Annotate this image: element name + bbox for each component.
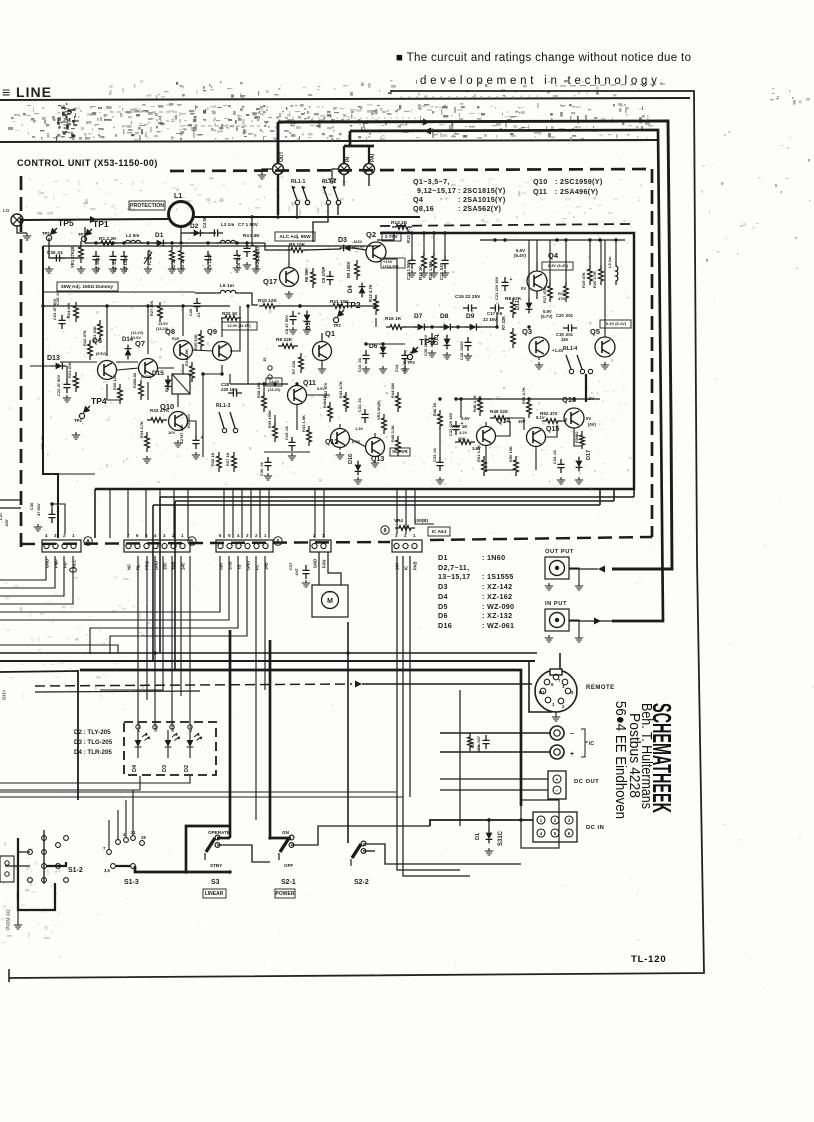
transistor Q2	[366, 242, 386, 262]
potentiometer VR4	[395, 526, 415, 531]
svg-text:13.9V: 13.9V	[131, 336, 141, 340]
svg-text:R7 22K: R7 22K	[291, 360, 296, 374]
svg-text:LO: LO	[3, 208, 10, 213]
transistor Q3	[529, 337, 549, 357]
ground C22	[63, 395, 71, 402]
wire Q8 emitter	[182, 364, 184, 374]
wire S3 aux	[217, 845, 270, 862]
wire box to connector drop	[173, 489, 175, 538]
ground under R2	[168, 266, 176, 273]
svg-text:6: 6	[219, 533, 222, 538]
svg-text:6: 6	[568, 831, 571, 836]
resistor R22	[88, 340, 93, 360]
svg-text:TP5: TP5	[58, 218, 74, 228]
junction	[614, 238, 617, 241]
ground C36	[34, 524, 42, 531]
ground under C7	[243, 262, 251, 269]
boxed label Q4 voltage	[542, 262, 573, 270]
resistor R40	[328, 402, 333, 422]
ground under TC1	[144, 266, 152, 273]
capacitor C1 .047	[482, 735, 489, 749]
ghost outline	[214, 105, 216, 135]
junction	[527, 397, 530, 400]
svg-text:C8 470P: C8 470P	[321, 266, 326, 283]
wire Q12 c	[339, 424, 341, 428]
svg-text:C35 .01: C35 .01	[47, 250, 64, 255]
svg-text:100: 100	[186, 414, 191, 421]
wire PA drop	[368, 146, 370, 163]
svg-text:R5 10K: R5 10K	[289, 242, 306, 248]
resistor R32	[221, 316, 241, 321]
svg-text:TL-120: TL-120	[631, 954, 666, 965]
wire C22 net	[66, 366, 68, 379]
resistor R13	[392, 225, 412, 230]
ground under C8	[289, 327, 297, 334]
svg-text:FAN: FAN	[322, 560, 327, 568]
ground Q1 emitter	[318, 366, 326, 373]
svg-text:D8: D8	[440, 313, 449, 320]
capacitor C33	[436, 457, 443, 471]
connector block D	[310, 540, 331, 552]
ground C27	[192, 452, 200, 459]
ground at antenna terminal	[23, 233, 31, 240]
diode D17	[576, 461, 583, 468]
svg-text:D13: D13	[47, 355, 60, 362]
wire C4 route	[110, 556, 247, 654]
svg-text:C7 1 50V: C7 1 50V	[238, 222, 259, 228]
wire R17 net	[549, 240, 551, 286]
diode D10	[444, 339, 451, 346]
svg-text:PAB: PAB	[413, 561, 418, 570]
resistor R8	[278, 344, 298, 349]
wire D2 tap	[180, 227, 182, 233]
wire C36 net	[52, 504, 65, 534]
transistor Q12	[331, 429, 350, 448]
svg-text:C15 22 25V: C15 22 25V	[455, 294, 481, 300]
wire Q2 emitter net	[383, 259, 397, 312]
wire drop to S2 area	[459, 690, 461, 826]
svg-text:D2,7~11,: D2,7~11,	[438, 563, 469, 572]
svg-text:FC: FC	[255, 564, 260, 570]
wire S1-3 bar	[116, 865, 131, 867]
wire R38 net	[263, 384, 265, 395]
arrowhead left on IN feed	[424, 128, 431, 135]
svg-text:9.1V: 9.1V	[536, 415, 545, 420]
svg-text:IN PUT: IN PUT	[545, 601, 567, 607]
svg-text:.047: .047	[4, 518, 9, 527]
wire LED return	[0, 776, 190, 783]
svg-text:0V: 0V	[586, 416, 591, 421]
svg-text:S1-3: S1-3	[124, 879, 139, 886]
svg-text:5: 5	[228, 533, 231, 538]
svg-text:R29: R29	[172, 337, 179, 341]
transistor Q5	[595, 337, 615, 357]
main input wire right	[193, 216, 420, 218]
node ring A	[84, 537, 92, 545]
wire bus solid part	[362, 683, 532, 685]
ground C37	[302, 580, 310, 587]
svg-text:(0.7V): (0.7V)	[141, 375, 152, 379]
capacitor C21	[501, 277, 508, 291]
junction	[495, 325, 498, 328]
svg-text:C29 .01: C29 .01	[284, 425, 289, 440]
resistor R23	[98, 320, 103, 340]
svg-text:A: A	[86, 539, 90, 545]
motor M	[312, 585, 348, 617]
svg-text:AIR: AIR	[219, 563, 224, 570]
svg-text:-163V: -163V	[352, 240, 363, 244]
svg-text:Q1: Q1	[325, 329, 335, 338]
svg-text:VR3 1K(B): VR3 1K(B)	[376, 400, 381, 420]
svg-text:3: 3	[246, 533, 249, 538]
ground under C5	[204, 266, 212, 273]
wire S2-2 out	[363, 844, 521, 864]
coil L1	[169, 202, 194, 227]
wire remote tab feed	[559, 653, 561, 670]
capacitor C17	[490, 304, 504, 311]
svg-text:D1: D1	[475, 833, 481, 840]
svg-text:6: 6	[136, 533, 139, 538]
wire box to connector drop	[159, 489, 161, 538]
ground C34	[557, 477, 565, 484]
svg-text:1-70V: 1-70V	[385, 234, 399, 240]
svg-text:C21 220 16V: C21 220 16V	[494, 276, 499, 300]
wire box to IC	[415, 489, 434, 524]
wire long return b	[0, 796, 403, 798]
svg-text:R7 22K: R7 22K	[501, 316, 506, 330]
resistor R15	[432, 252, 437, 272]
wire R5 to D3	[305, 249, 341, 250]
resistor R2	[170, 247, 175, 266]
svg-text:RL1-2: RL1-2	[322, 179, 337, 185]
wire LED return b	[0, 776, 140, 790]
wire to DC OUT 2	[440, 789, 548, 791]
svg-text:Q2: Q2	[366, 230, 376, 239]
capacitor C8b	[326, 271, 333, 285]
transistor Q10	[169, 412, 188, 431]
svg-text:TP4: TP4	[91, 396, 107, 406]
svg-text:IC A6J: IC A6J	[432, 529, 447, 535]
svg-text:C11 1 50V: C11 1 50V	[406, 260, 411, 280]
transistor Q13	[366, 438, 385, 457]
wire bundle 2 stub	[599, 489, 601, 505]
junction	[430, 325, 433, 328]
svg-text:L3 1m: L3 1m	[221, 222, 234, 227]
coil L6	[216, 290, 240, 293]
svg-text:(5.7V): (5.7V)	[541, 314, 553, 319]
junction	[201, 372, 204, 375]
wire OUT feed	[278, 121, 672, 569]
scan noise band	[8, 103, 653, 141]
wire S1-3 d	[132, 790, 134, 836]
resistor R53	[527, 398, 532, 418]
wire Q10 collector	[177, 394, 179, 407]
wire box to connector drop	[223, 489, 225, 538]
wire Q2 collector	[377, 232, 394, 240]
arrowhead IN PUT	[594, 618, 601, 625]
svg-text:22 16V: 22 16V	[483, 317, 497, 322]
junction	[564, 238, 567, 241]
wire exit left 1	[0, 499, 21, 501]
wire Q15 emitter	[535, 447, 537, 470]
junction	[527, 325, 530, 328]
wire R12 to chain	[375, 318, 377, 327]
smudge dots	[400, 96, 540, 97]
svg-text:J5: J5	[262, 357, 267, 362]
wire Q6-Q7 base	[116, 361, 138, 363]
bus wire mid	[230, 383, 288, 385]
wire to R5	[265, 243, 289, 250]
transistor Q14	[477, 427, 496, 446]
left block top bus	[43, 305, 230, 307]
ground Q12	[336, 452, 344, 459]
svg-text:Q1~3,5~7,: Q1~3,5~7,	[413, 177, 450, 186]
wire Q9 collector net	[221, 318, 223, 337]
capacitor C8	[289, 311, 296, 325]
wire to L6	[195, 292, 216, 294]
wire bundle 2	[153, 504, 600, 506]
svg-text:1: 1	[552, 702, 555, 707]
wire Q6 collector net	[106, 306, 108, 356]
capacitor C13	[362, 350, 369, 364]
wire Q14 emitter	[486, 446, 516, 470]
resistor R20	[599, 265, 604, 285]
svg-text:R51 3.3K: R51 3.3K	[476, 445, 481, 462]
dc out block	[548, 771, 566, 799]
svg-text:2: 2	[255, 533, 258, 538]
svg-text:R47 1K: R47 1K	[452, 424, 468, 429]
junction	[228, 870, 231, 873]
resistor R39	[273, 422, 278, 442]
svg-text:+: +	[556, 778, 559, 784]
control unit dashed left	[20, 176, 23, 548]
ground under VR1	[77, 266, 85, 273]
node ring 5	[188, 537, 196, 545]
potentiometer VR1	[79, 243, 84, 263]
bus wire Q16 row	[456, 398, 600, 400]
svg-text:REMOTE: REMOTE	[586, 685, 615, 691]
wire bus up	[229, 374, 231, 384]
wire C12 top	[444, 233, 446, 255]
junction	[598, 238, 601, 241]
resistor R1 15m	[468, 733, 473, 751]
arrowhead right on OUT feed	[423, 119, 430, 126]
svg-text:PAI: PAI	[370, 153, 376, 162]
junction	[245, 241, 248, 244]
wire E3 drop	[409, 556, 411, 797]
wire OUT gnd stub	[262, 169, 272, 172]
wire to DC IN feed	[430, 820, 440, 826]
wire R49 to Q15	[508, 418, 524, 430]
svg-text:D4: D4	[348, 285, 354, 293]
svg-text:R15 1.5M: R15 1.5M	[428, 261, 433, 280]
svg-text:VR4: VR4	[394, 518, 403, 523]
capacitor C5	[204, 251, 211, 265]
svg-text:R39 150K: R39 150K	[267, 410, 272, 428]
wire D6 net	[366, 343, 405, 345]
wire box to E1	[396, 489, 398, 534]
dashed wire bus	[35, 684, 352, 686]
capacitor C16	[428, 333, 435, 347]
capacitor C18	[464, 337, 471, 351]
trimmer TC1	[144, 251, 152, 265]
wire to minus terminal	[440, 732, 550, 734]
ground D17	[575, 477, 583, 484]
svg-text:(13.4V): (13.4V)	[268, 388, 281, 392]
wire C2 route	[0, 556, 229, 620]
resistor R51	[482, 456, 487, 476]
svg-text:4: 4	[237, 533, 240, 538]
svg-text:S2-2: S2-2	[354, 879, 369, 886]
coil L5	[616, 262, 618, 285]
svg-text:+5: +5	[497, 311, 503, 316]
ground under C6	[233, 265, 241, 272]
svg-text:RL1-4: RL1-4	[563, 346, 578, 352]
svg-text:Q8,16: Q8,16	[413, 204, 434, 213]
junction	[338, 304, 341, 307]
terminal IN	[339, 164, 350, 175]
wire Q16 emitter	[574, 428, 582, 446]
resistor R46	[438, 410, 443, 430]
junction	[228, 659, 231, 662]
ground under R14	[420, 270, 428, 277]
svg-text:C30 .01: C30 .01	[259, 461, 264, 476]
wire jack out	[569, 568, 598, 570]
ground S1-2	[14, 922, 22, 929]
svg-text:: XZ-132: : XZ-132	[482, 611, 512, 620]
wire C1 route	[0, 556, 220, 612]
svg-text:R53 4.7K: R53 4.7K	[521, 387, 526, 404]
svg-text:10K: 10K	[149, 301, 154, 308]
switch S3	[206, 838, 215, 852]
bracket IC	[581, 729, 588, 757]
paper speckle schematic	[37, 220, 625, 489]
wire bundle 3 stub	[613, 489, 615, 501]
svg-text:ON: ON	[282, 830, 290, 835]
terminal antenna input	[11, 214, 23, 226]
wire bundle 3	[175, 500, 614, 502]
svg-text:5: 5	[571, 690, 574, 695]
capacitor C20	[563, 324, 577, 331]
ground under C2	[109, 266, 117, 273]
svg-text:(6.4V): (6.4V)	[514, 253, 526, 258]
ground C30	[264, 473, 272, 480]
svg-text:+: +	[510, 277, 513, 283]
svg-text:(0.6V): (0.6V)	[96, 352, 107, 356]
svg-text:R9 100K: R9 100K	[346, 261, 351, 278]
svg-text:28: 28	[141, 835, 146, 840]
junction	[50, 502, 53, 505]
junction	[298, 304, 301, 307]
wire TP5 branch	[49, 238, 81, 258]
svg-text:C12 .047: C12 .047	[439, 262, 444, 280]
band top rule	[0, 98, 690, 100]
svg-text:RL1: RL1	[164, 384, 169, 392]
wire Q7-Q8	[157, 367, 174, 369]
wire box to connector	[94, 489, 96, 538]
svg-text:D2: D2	[190, 223, 199, 230]
transistor Q4	[527, 271, 547, 291]
junction	[298, 304, 301, 307]
svg-text:C1 .047: C1 .047	[476, 735, 481, 750]
svg-text:Q11: Q11	[303, 380, 316, 387]
boxed label LINEAR	[203, 889, 226, 898]
svg-text:R8 22K: R8 22K	[276, 337, 293, 343]
svg-text:+: +	[410, 350, 413, 356]
wire Q11 out	[306, 394, 330, 396]
wire jack in	[569, 620, 663, 622]
resistor R6	[311, 268, 316, 288]
junction	[235, 241, 238, 244]
diode D4	[359, 287, 366, 294]
capacitor C27	[192, 435, 199, 449]
resistor R19	[588, 265, 593, 285]
wire L5 net	[615, 240, 617, 262]
resistor R14	[422, 252, 427, 272]
svg-text:IC: IC	[589, 741, 594, 747]
svg-text:: XZ-142: : XZ-142	[482, 582, 512, 591]
scan bleedthrough upper right	[420, 176, 642, 224]
svg-text:PROTECTION: PROTECTION	[130, 203, 164, 209]
boxed label Q9 voltage	[222, 322, 257, 330]
connector REMOTE	[535, 670, 577, 712]
boxed label Q5 voltage	[600, 320, 631, 328]
switch S1-3 contacts	[107, 850, 112, 855]
svg-text:Q12: Q12	[325, 439, 338, 446]
wire box to connector drop	[241, 489, 243, 538]
inner box left edge	[43, 246, 58, 538]
wire R19 net	[589, 240, 591, 269]
svg-text:L6 1m: L6 1m	[220, 283, 234, 289]
svg-text:OFF: OFF	[284, 863, 293, 868]
resistor R34	[145, 432, 150, 452]
junction	[572, 397, 575, 400]
wire mid vertical net	[247, 306, 249, 384]
right margin specks	[701, 131, 810, 269]
wire S1-2 pole	[43, 830, 45, 884]
resistor R7	[299, 353, 304, 373]
LED D4	[135, 740, 142, 747]
svg-text:: 2SA562(Y): : 2SA562(Y)	[458, 204, 502, 213]
ground under C3	[120, 266, 128, 273]
svg-text:R34 4.7K: R34 4.7K	[139, 421, 144, 438]
wire Q12 emitter stub	[339, 447, 341, 450]
filter branch wire	[85, 241, 265, 243]
svg-text:OPERATE: OPERATE	[208, 830, 230, 835]
svg-text:6: 6	[276, 539, 279, 545]
resistor R38	[262, 392, 267, 412]
svg-text:: 2SC1815(Y): : 2SC1815(Y)	[458, 186, 506, 195]
svg-text:D1: D1	[438, 553, 448, 562]
connector block C	[216, 540, 273, 552]
ground under R3	[177, 266, 185, 273]
diode D1	[157, 240, 164, 247]
arrowhead on main wire	[90, 216, 97, 223]
wire tap L1 out	[251, 219, 253, 246]
svg-text:5V AVR: 5V AVR	[392, 449, 408, 454]
resistor R41	[307, 426, 312, 446]
wire bundle 1 left drop	[159, 497, 161, 653]
junction	[295, 215, 298, 218]
svg-text:4: 4	[154, 533, 157, 538]
page border tick	[8, 969, 10, 982]
svg-text:R50 15K: R50 15K	[508, 446, 513, 462]
wire bundle 2 left drop	[152, 505, 154, 661]
scan bleedthrough left	[61, 293, 120, 422]
ground under D5	[303, 327, 311, 334]
jumper J5	[268, 366, 272, 370]
svg-text:3,5: 3,5	[104, 868, 110, 873]
